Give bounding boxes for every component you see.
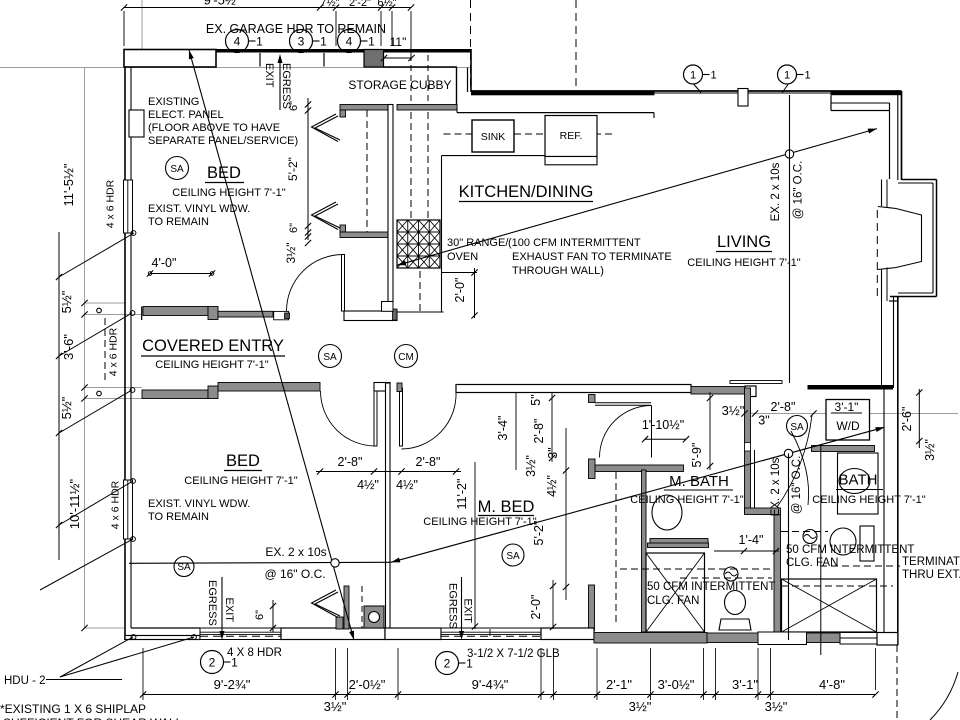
svg-text:BATH: BATH — [839, 472, 878, 489]
bath door arc 2 — [791, 431, 809, 505]
svg-text:LIVING: LIVING — [717, 233, 771, 251]
svg-text:EGRESS: EGRESS — [447, 583, 459, 629]
svg-text:9'-4¾": 9'-4¾" — [472, 677, 509, 692]
bottom ext line — [553, 648, 555, 700]
bottom wall bed2 inner — [131, 627, 200, 629]
window bed1 west — [124, 180, 133, 233]
joist leader D3 — [391, 427, 885, 562]
bath door opening — [758, 632, 807, 645]
svg-text:30" RANGE/: 30" RANGE/ — [447, 237, 509, 249]
divider wall lower — [774, 515, 781, 644]
mbed ext x552 — [551, 392, 553, 462]
shower west wall — [642, 470, 647, 632]
svg-text:1: 1 — [710, 69, 716, 81]
mbed ext x516 — [515, 392, 517, 470]
divider jog — [745, 508, 781, 515]
svg-text:4 x 6 HDR: 4 x 6 HDR — [110, 480, 122, 529]
egress top — [279, 58, 281, 110]
svg-text:CLG. FAN: CLG. FAN — [647, 595, 699, 607]
right wall upper inner — [897, 95, 899, 180]
svg-text:(100 CFM INTERMITTENT: (100 CFM INTERMITTENT — [508, 237, 641, 249]
svg-text:50 CFM INTERMITTENT: 50 CFM INTERMITTENT — [786, 544, 914, 556]
svg-text:3½": 3½" — [324, 699, 347, 714]
bed2 closet stub — [344, 586, 349, 629]
right wall lower inner2 — [883, 388, 885, 645]
svg-text:EX. 2 x 10s: EX. 2 x 10s — [770, 162, 782, 221]
dim 2-6 line — [918, 389, 920, 448]
bottom ext line — [596, 648, 598, 700]
top tick — [389, 4, 395, 10]
svg-text:1: 1 — [690, 69, 696, 81]
living north window 1 — [654, 92, 738, 94]
svg-text:ELECT. PANEL: ELECT. PANEL — [148, 109, 224, 121]
left dim chain line x84 — [84, 68, 86, 629]
svg-text:3'-6": 3'-6" — [61, 334, 76, 360]
svg-text:3½": 3½" — [629, 699, 652, 714]
bath window bottom — [840, 633, 877, 645]
svg-text:3½": 3½" — [722, 403, 745, 418]
shower box — [646, 553, 705, 632]
svg-text:5": 5" — [529, 394, 543, 405]
svg-text:4 x 6 HDR: 4 x 6 HDR — [105, 179, 117, 228]
svg-text:3-1/2 X 7-1/2 GLB: 3-1/2 X 7-1/2 GLB — [467, 648, 560, 660]
svg-text:EXIST. VINYL WDW.: EXIST. VINYL WDW. — [148, 498, 250, 510]
svg-text:@ 16" O.C.: @ 16" O.C. — [791, 456, 803, 515]
mbath fan — [724, 567, 738, 581]
bed2 closet jamb — [336, 617, 343, 629]
storage cubby east wall — [456, 67, 458, 105]
leader line L3 — [59, 390, 132, 433]
svg-text:3½": 3½" — [284, 243, 298, 264]
svg-text:2'-0": 2'-0" — [453, 278, 467, 303]
counter south edge — [397, 311, 444, 313]
marker 1-1 b — [778, 65, 797, 84]
svg-text:M. BED: M. BED — [478, 498, 535, 516]
svg-text:3½": 3½" — [524, 455, 538, 477]
svg-text:BED: BED — [226, 452, 260, 470]
svg-text:BED: BED — [207, 164, 241, 182]
svg-text:EGRESS: EGRESS — [280, 63, 292, 109]
svg-text:SA: SA — [177, 562, 191, 573]
bay window dashed line — [876, 210, 878, 297]
fixture O box — [364, 606, 384, 628]
svg-text:1: 1 — [231, 655, 238, 669]
kitchen step wall x471 inner — [467, 68, 469, 93]
living north wall outer — [471, 90, 902, 92]
marker 3-1 — [290, 30, 313, 53]
svg-text:1: 1 — [256, 34, 263, 48]
bottom tick — [767, 691, 773, 697]
anchor circle — [131, 231, 136, 236]
bottom tick — [700, 691, 706, 697]
anchor circle — [131, 537, 136, 542]
refrigerator box — [545, 116, 597, 157]
bed2 door east wall seg — [374, 383, 390, 392]
wall tick x260 — [259, 53, 261, 67]
mbath door arc — [600, 406, 652, 458]
svg-text:SINK: SINK — [481, 131, 506, 143]
bottom ext line — [703, 648, 705, 700]
svg-text:@ 16" O.C.: @ 16" O.C. — [793, 161, 805, 220]
mbath toilet — [725, 591, 746, 615]
bottom ext line — [397, 648, 399, 700]
svg-text:50 CFM INTERMITTENT: 50 CFM INTERMITTENT — [647, 581, 775, 593]
svg-text:6½": 6½" — [377, 0, 396, 9]
svg-text:CEILING HEIGHT 7'-1": CEILING HEIGHT 7'-1" — [184, 475, 297, 487]
bottom ext line — [335, 648, 337, 700]
svg-text:CM: CM — [398, 352, 414, 363]
bifold chevron bottom — [315, 204, 340, 228]
hall wall end post — [745, 386, 756, 397]
porch north wall gray A — [143, 307, 208, 316]
svg-text:CEILING HEIGHT 7'-1": CEILING HEIGHT 7'-1" — [687, 257, 800, 269]
svg-text:REF.: REF. — [560, 130, 583, 142]
leader line L1 — [59, 233, 134, 277]
mbath dashed y569 — [620, 568, 772, 570]
divider inner line — [754, 450, 756, 512]
svg-text:EX. 2 x 10s: EX. 2 x 10s — [770, 457, 782, 516]
divider notch — [745, 443, 751, 452]
svg-text:1: 1 — [784, 69, 790, 81]
gridline horizontal y67 — [0, 67, 471, 69]
svg-text:1: 1 — [466, 656, 473, 670]
svg-text:4'-8": 4'-8" — [819, 677, 845, 692]
svg-text:*EXISTING 1 X 6 SHIPLAP: *EXISTING 1 X 6 SHIPLAP — [0, 702, 146, 716]
svg-text:9'-5½": 9'-5½" — [204, 0, 241, 8]
svg-text:2'-1": 2'-1" — [606, 677, 632, 692]
svg-text:3'-1": 3'-1" — [835, 400, 859, 414]
svg-text:COVERED ENTRY: COVERED ENTRY — [142, 337, 284, 355]
wall: top band east — [384, 49, 472, 53]
egress bed2 — [221, 577, 223, 636]
bottom wall mbed e — [541, 628, 594, 640]
marker 4-1 b — [338, 30, 361, 53]
svg-text:1: 1 — [804, 69, 810, 81]
dashed vert x470 — [470, 0, 472, 91]
mbath north wall — [595, 465, 684, 472]
svg-text:7½": 7½" — [320, 0, 339, 9]
mbed 2-0 dim line — [552, 580, 554, 629]
wall tick x324 — [323, 53, 325, 67]
porch door stop — [274, 311, 289, 319]
svg-text:M. BATH: M. BATH — [669, 473, 729, 490]
wall: storage post hatched — [364, 50, 384, 68]
svg-text:EXIT: EXIT — [223, 598, 235, 623]
svg-text:5½": 5½" — [59, 396, 74, 419]
living north window 2 — [748, 92, 831, 94]
top dim line — [124, 7, 411, 9]
closet s wall gray — [340, 232, 388, 238]
top tick — [378, 4, 384, 10]
svg-text:1'-10½": 1'-10½" — [642, 418, 684, 432]
kitchen wall inner face — [457, 112, 654, 114]
mbed closet shelf — [595, 402, 651, 404]
bottom wall corner e — [877, 633, 898, 646]
left dim ext y303 — [85, 302, 127, 304]
top tick — [333, 4, 339, 10]
svg-text:2'-0½": 2'-0½" — [349, 677, 386, 692]
dim 5-9 ext — [709, 392, 711, 470]
right wall lower outer — [897, 297, 899, 646]
svg-text:CEILING HEIGHT 7'-1": CEILING HEIGHT 7'-1" — [155, 359, 268, 371]
mbed ext x566 — [565, 428, 567, 600]
counter plumbing dashed 2 — [427, 112, 429, 218]
porch edge dashed — [104, 318, 106, 383]
top ext lines — [123, 11, 125, 46]
svg-text:CLG. FAN: CLG. FAN — [786, 557, 838, 569]
hall wall gray — [691, 387, 745, 395]
left dim ext y398 — [85, 398, 143, 400]
living north wall e — [831, 91, 902, 95]
svg-text:11": 11" — [390, 35, 407, 49]
sa circle entry — [319, 345, 342, 368]
bottom tick — [140, 691, 146, 697]
wall: garage header thick section — [124, 50, 216, 68]
bath dashed y531 — [781, 531, 828, 533]
mbath dashed y578 — [680, 577, 772, 579]
svg-text:3½": 3½" — [765, 699, 788, 714]
closet header line — [730, 381, 782, 384]
svg-text:6": 6" — [288, 223, 300, 233]
bottom ext line — [142, 648, 144, 700]
vanity bottom gray — [650, 539, 708, 546]
bottom ext line — [770, 648, 772, 700]
gridline vertical x142 top — [141, 0, 143, 68]
porch nw corner line — [141, 307, 143, 321]
center wall x388 — [386, 383, 391, 632]
svg-text:TO REMAIN: TO REMAIN — [148, 216, 209, 228]
porch south post — [208, 386, 218, 399]
porch north post — [208, 307, 218, 320]
svg-text:STORAGE CUBBY: STORAGE CUBBY — [348, 78, 451, 92]
joist node living — [785, 150, 793, 158]
svg-text:2: 2 — [209, 655, 216, 669]
svg-text:3½": 3½" — [923, 439, 937, 461]
west wall outer — [124, 67, 126, 640]
mbed west ext — [474, 462, 476, 629]
svg-text:KITCHEN/DINING: KITCHEN/DINING — [459, 183, 594, 201]
svg-text:2'-2": 2'-2" — [349, 0, 371, 9]
shower top band — [648, 543, 709, 548]
bed2 bifold chevron — [315, 592, 340, 616]
svg-text:3'-0½": 3'-0½" — [658, 677, 695, 692]
svg-text:HDU - 2: HDU - 2 — [4, 675, 46, 687]
bay window trapezoid — [878, 207, 922, 270]
bottom tick — [538, 691, 544, 697]
svg-text:3": 3" — [758, 414, 769, 428]
sa circle bed2 — [174, 557, 194, 577]
marker 4-1 a — [226, 30, 249, 53]
bottom tick — [594, 691, 600, 697]
top tick — [317, 4, 323, 10]
svg-text:SEPARATE PANEL/SERVICE): SEPARATE PANEL/SERVICE) — [148, 135, 298, 147]
closet wall east — [388, 105, 393, 302]
svg-text:4½": 4½" — [396, 478, 418, 492]
svg-text:THRU EXT.: THRU EXT. — [902, 569, 960, 581]
refrigerator door strip — [545, 157, 597, 165]
right wall upper outer — [901, 91, 903, 180]
bottom wall bath mid gray — [707, 633, 758, 643]
closet n wall gray e — [397, 105, 457, 111]
bottom ext line — [650, 648, 652, 700]
anchor circle — [131, 479, 136, 484]
svg-text:6": 6" — [254, 610, 266, 620]
closet s jamb — [340, 225, 346, 232]
terminate dashed — [820, 565, 900, 567]
joist node bath — [784, 449, 792, 457]
dim 11in line — [384, 57, 412, 59]
anchor circle — [130, 388, 135, 393]
mbed door leaf — [400, 388, 403, 446]
svg-text:EXIT: EXIT — [263, 63, 275, 88]
egress window bed2 — [200, 628, 281, 640]
svg-text:SA: SA — [790, 422, 804, 433]
entry step jog — [382, 302, 394, 312]
svg-text:5'-9": 5'-9" — [690, 443, 704, 468]
svg-text:2: 2 — [444, 656, 451, 670]
svg-text:5½": 5½" — [59, 290, 74, 313]
wall below wd — [812, 446, 875, 452]
bottom tick — [395, 691, 401, 697]
svg-text:TO REMAIN: TO REMAIN — [148, 511, 209, 523]
bottom tick — [550, 691, 556, 697]
svg-text:3'-4": 3'-4" — [496, 416, 510, 441]
vanity counter dashed — [615, 472, 617, 625]
top tick — [121, 4, 127, 10]
svg-text:SUFFICIENT FOR SHEAR WALL: SUFFICIENT FOR SHEAR WALL — [3, 716, 183, 720]
joist line living — [789, 95, 791, 383]
sa circle mbed — [502, 544, 524, 566]
svg-text:2'-8": 2'-8" — [771, 400, 796, 414]
svg-text:2'-0": 2'-0" — [529, 595, 543, 620]
svg-text:EXIT: EXIT — [462, 599, 474, 624]
leader line L7 — [60, 637, 194, 677]
sink box — [472, 120, 514, 152]
bottom ext line — [757, 648, 759, 700]
dim 2-0 line — [474, 268, 476, 318]
bottom tick — [344, 691, 350, 697]
svg-text:SA: SA — [506, 551, 520, 562]
bottom tick — [755, 691, 761, 697]
svg-text:4: 4 — [234, 34, 241, 48]
mbath lav oval — [652, 495, 682, 530]
bed2 joist node — [331, 559, 339, 567]
living north mullion — [738, 89, 748, 107]
anchor circle — [192, 635, 197, 640]
bay top wall — [902, 179, 937, 181]
egress window mbed — [441, 628, 541, 640]
svg-text:4½": 4½" — [357, 478, 379, 492]
counter plumbing dashed 1 — [410, 112, 412, 218]
porch north wall gray B — [218, 311, 273, 317]
bottom ext line — [540, 648, 542, 700]
elect panel box — [129, 110, 144, 137]
bath toilet — [830, 528, 856, 555]
mbath nw post — [589, 459, 596, 479]
window bed2 west — [124, 480, 133, 539]
corner arc — [930, 672, 958, 720]
range hatched grid — [397, 220, 440, 268]
marker 1-1 a — [684, 65, 703, 84]
entry door leaf — [342, 255, 345, 312]
counter west edge — [441, 156, 443, 312]
storage cubby top wall — [384, 66, 458, 68]
svg-text:EXISTING: EXISTING — [148, 96, 199, 108]
left tick x59 a — [56, 274, 62, 280]
dim 1-4 line — [714, 550, 779, 552]
bed2 door arc — [321, 391, 376, 446]
svg-text:4 x 6 HDR: 4 x 6 HDR — [108, 327, 120, 376]
svg-text:10'-11½": 10'-11½" — [67, 479, 82, 530]
bottom wall bath e gray — [807, 633, 841, 643]
bottom wall bed2 outer — [125, 636, 200, 640]
bottom ext line — [715, 648, 717, 700]
bay bottom wall — [890, 296, 937, 298]
west wall inner — [130, 67, 132, 180]
left dim ext y387 — [85, 387, 143, 389]
leader line L5 — [40, 539, 133, 590]
mbed door arc — [402, 392, 457, 450]
closet n jamb — [340, 110, 346, 117]
anchor circle — [130, 311, 135, 316]
dim 1-10 line — [645, 438, 686, 440]
svg-text:1'-4": 1'-4" — [739, 533, 764, 547]
mbath door leaf — [651, 406, 653, 458]
bay east wall — [936, 180, 938, 297]
svg-text:2'-8": 2'-8" — [416, 455, 441, 469]
anchor circle — [131, 635, 136, 640]
bay window jamb top — [881, 180, 883, 207]
marker 2-1 a — [201, 651, 224, 674]
bottom wall bath w gray — [594, 633, 707, 644]
joist line bath — [788, 454, 790, 641]
svg-text:2'-8": 2'-8" — [338, 455, 363, 469]
bath vanity box — [838, 453, 879, 514]
bath dashed y586 — [781, 585, 893, 587]
svg-text:1: 1 — [368, 34, 375, 48]
bath dim chain gray y413 — [746, 413, 958, 415]
marker 2-1 b — [436, 652, 459, 675]
mbath east stub upper — [589, 585, 595, 630]
svg-text:5'-2": 5'-2" — [286, 157, 300, 181]
entry wall east seg — [344, 311, 397, 321]
bath lav oval — [839, 469, 870, 494]
bath fan — [803, 530, 817, 544]
svg-text:9'-2¾": 9'-2¾" — [214, 677, 251, 692]
bottom tick — [712, 691, 718, 697]
hall dim line — [316, 471, 461, 473]
porch anchor circles — [97, 308, 102, 313]
bifold chevron top — [315, 116, 340, 140]
porch south wall gray B — [218, 383, 320, 392]
svg-text:3'-1": 3'-1" — [732, 677, 758, 692]
egress mbed — [461, 577, 463, 636]
svg-text:4'-0": 4'-0" — [152, 256, 177, 270]
living north wall solid w — [471, 91, 654, 95]
kitchen step wall x471 — [470, 49, 472, 92]
porch south wall gray A — [142, 390, 208, 399]
svg-text:CEILING HEIGHT 7'-1": CEILING HEIGHT 7'-1" — [630, 494, 743, 506]
svg-text:11'-5½": 11'-5½" — [61, 163, 76, 206]
cm circle — [395, 345, 418, 368]
sa circle bed1 — [166, 157, 189, 180]
leader line L4 — [59, 481, 133, 525]
bed2 closet dashed — [361, 586, 363, 628]
wall: top band west — [216, 49, 364, 53]
counter edge line — [442, 155, 546, 157]
bottom tick — [647, 691, 653, 697]
svg-text:W/D: W/D — [836, 419, 860, 433]
